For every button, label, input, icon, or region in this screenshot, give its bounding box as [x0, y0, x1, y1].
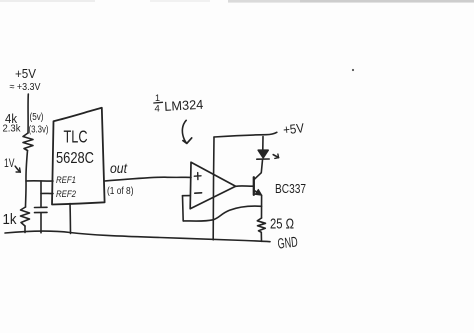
scan edge band top	[0, 0, 474, 3]
svg-text:2.3k: 2.3k	[3, 123, 22, 135]
svg-text:(1 of 8): (1 of 8)	[107, 186, 134, 197]
svg-text:1: 1	[155, 93, 160, 103]
svg-text:LM324: LM324	[164, 97, 204, 114]
annotation curved arrow to op-amp	[182, 120, 186, 143]
svg-text:TLC: TLC	[64, 127, 88, 147]
svg-text:1V: 1V	[4, 156, 15, 170]
wire emitter down	[261, 195, 263, 218]
svg-text:(3.3v): (3.3v)	[29, 123, 49, 135]
resistor R1 4k/2.3k	[23, 133, 33, 151]
feedback wire emitter to inverting input	[183, 206, 261, 221]
emitter lead with arrow	[254, 190, 260, 194]
op-amp - input sign	[195, 192, 202, 194]
wire from +5V down to R1	[27, 94, 29, 133]
svg-text:1k: 1k	[3, 211, 17, 228]
wire LED cathode to collector	[261, 160, 262, 173]
IC U1 TLC5628C DAC box	[52, 108, 105, 205]
svg-text:5628C: 5628C	[56, 150, 94, 167]
svg-text:+5V: +5V	[282, 120, 305, 137]
wire base from op-amp output	[236, 185, 254, 187]
svg-text:GND: GND	[277, 235, 299, 253]
op-amp U2 (1/4 LM324)	[190, 162, 235, 209]
ground rail	[5, 231, 270, 242]
LED emission arrow	[273, 155, 278, 158]
op-amp + input sign	[194, 173, 201, 180]
wire node to REF1 pin	[26, 180, 53, 182]
wire DAC ground pin to rail	[69, 204, 72, 234]
transistor Q1 BC337	[253, 177, 255, 195]
capacitor C1	[35, 206, 48, 208]
arrow from 1V to node	[15, 166, 20, 172]
wire DAC out to op-amp + input	[105, 177, 192, 181]
svg-text:25 Ω: 25 Ω	[270, 217, 294, 233]
svg-text:REF2: REF2	[56, 189, 77, 200]
wire 1k to ground rail	[24, 226, 26, 233]
wire +5V top rail	[214, 132, 277, 137]
wire LED anode	[262, 137, 264, 150]
resistor 1k	[21, 207, 30, 226]
LED D1	[258, 150, 268, 158]
svg-text:+5V: +5V	[15, 66, 36, 81]
svg-text:BC337: BC337	[275, 181, 306, 196]
svg-text:≈ +3.3V: ≈ +3.3V	[10, 81, 41, 93]
wire capacitor branch from REF1 wire	[40, 181, 42, 207]
collector lead	[254, 173, 261, 180]
svg-text:REF1: REF1	[56, 175, 76, 186]
svg-text:4: 4	[155, 104, 160, 115]
svg-text:out: out	[110, 161, 128, 176]
resistor 25 ohm	[257, 218, 265, 232]
wire 25 ohm to ground rail	[260, 232, 262, 241]
svg-text:(5v): (5v)	[30, 112, 44, 123]
stray ink dot	[352, 69, 354, 71]
wire R1 to 1k / node 1V	[26, 151, 28, 208]
wire REF2 pin	[41, 192, 53, 194]
wire op-amp supply vertical (V+ to top rail, V- to ground rail)	[212, 137, 215, 240]
